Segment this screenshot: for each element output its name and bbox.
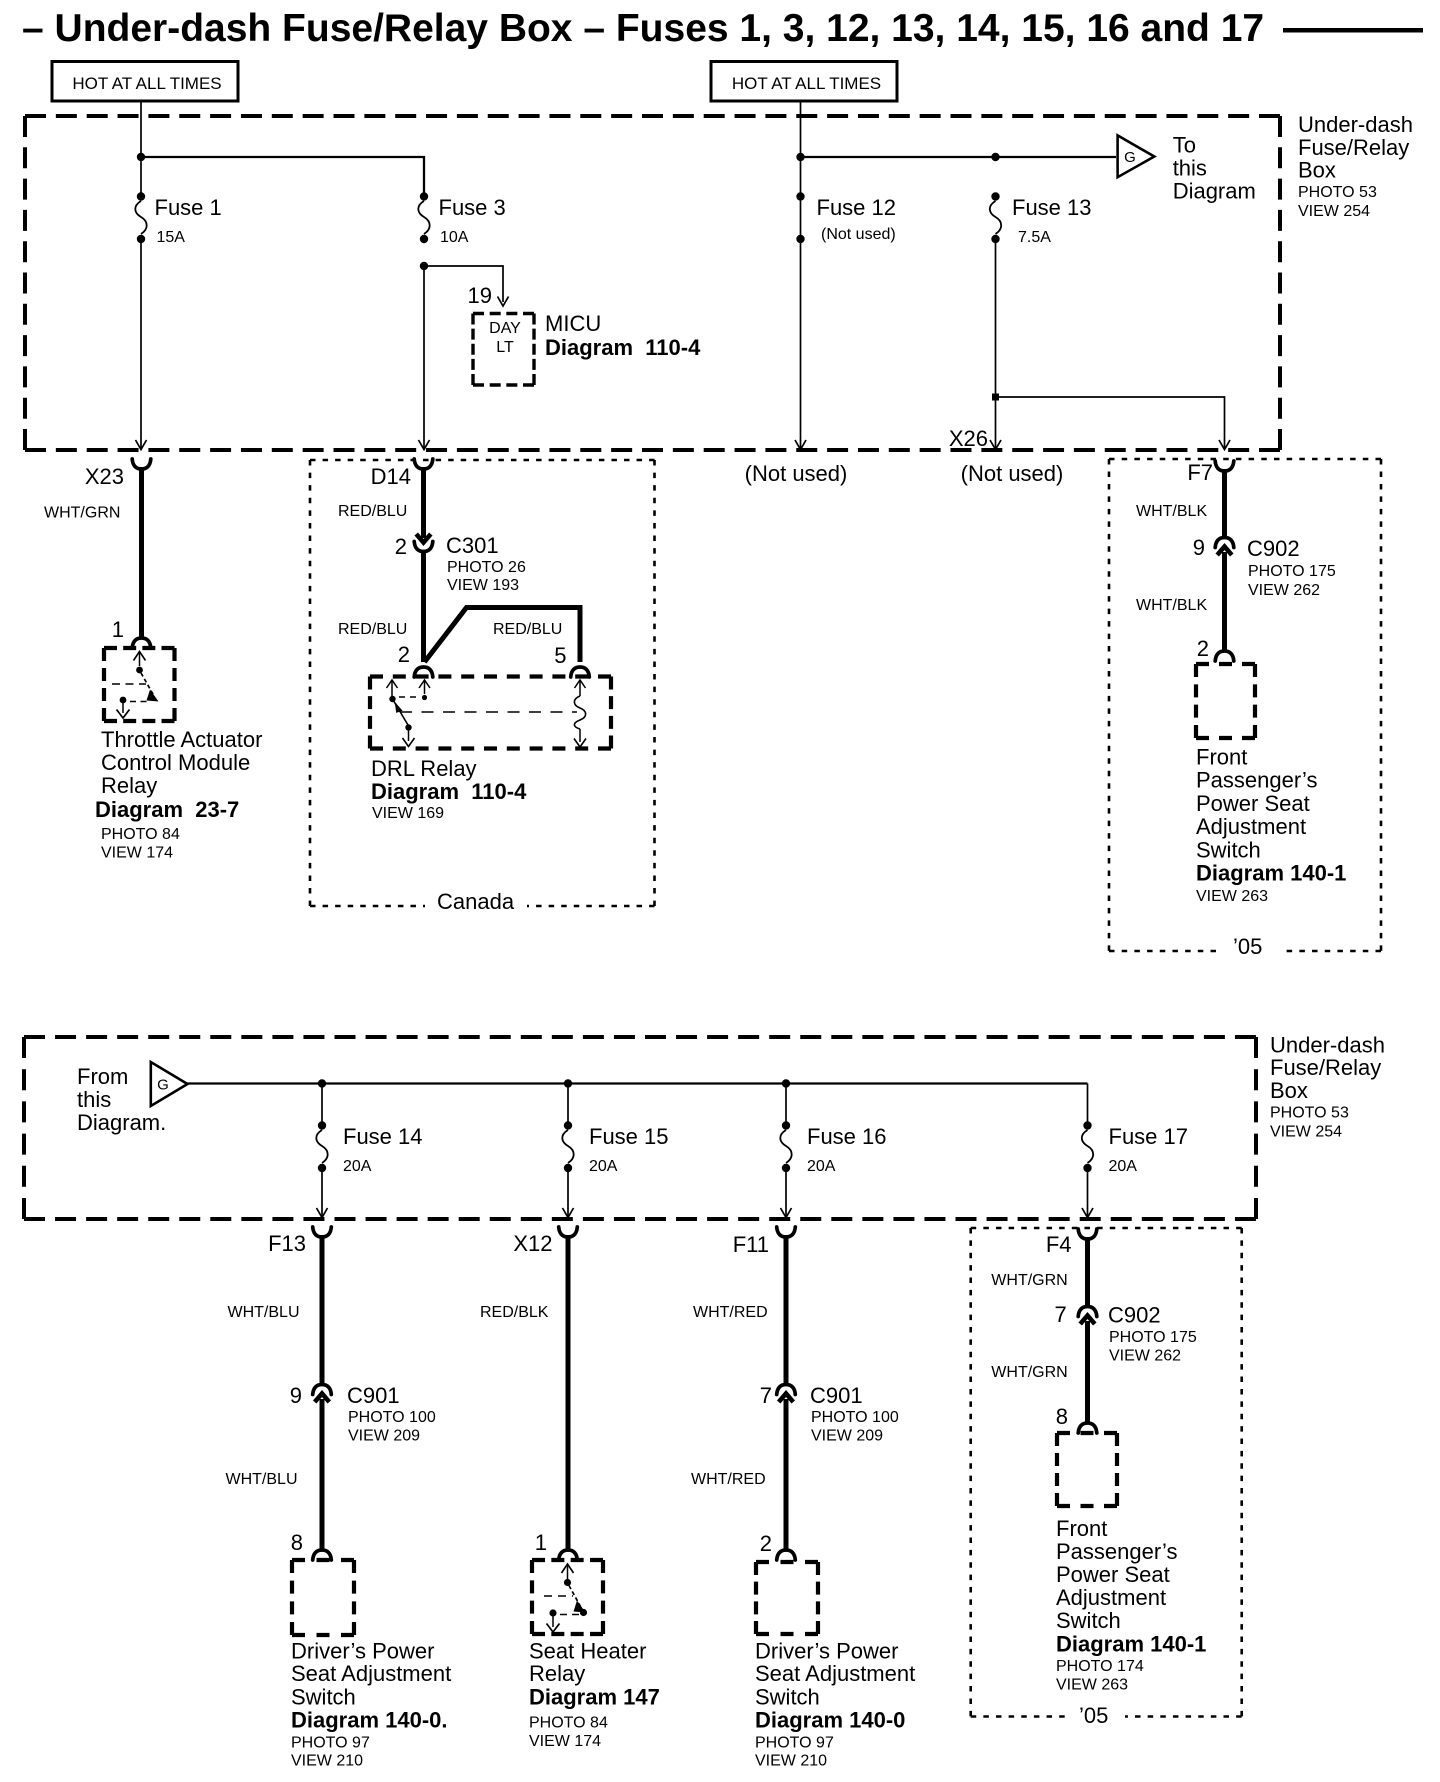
svg-text:this: this — [1173, 156, 1207, 181]
svg-text:Fuse 13: Fuse 13 — [1012, 195, 1092, 220]
svg-text:RED/BLU: RED/BLU — [493, 621, 562, 638]
fuse F13 (Fuse 13, 7.5A) — [990, 192, 1092, 246]
label: DRL Relay Diagram 110-4 VIEW 169 — [371, 756, 527, 822]
power source label: HOT AT ALL TIMES (left) — [52, 62, 238, 102]
svg-text:20A: 20A — [807, 1158, 836, 1175]
svg-text:Diagram 147: Diagram 147 — [529, 1685, 660, 1710]
label: Driver's Power Seat Adjustment Switch Diagram 140-0 (right) — [755, 1638, 915, 1769]
svg-text:WHT/GRN: WHT/GRN — [44, 505, 120, 522]
connector F11 (cup at box edge) — [733, 1227, 796, 1257]
svg-text:Power Seat: Power Seat — [1196, 791, 1310, 816]
wire: Fuse 14 to box edge (with arrow) — [317, 1172, 328, 1218]
svg-text:1: 1 — [112, 617, 124, 642]
svg-text:10A: 10A — [440, 229, 469, 246]
svg-text:VIEW 169: VIEW 169 — [372, 805, 444, 822]
svg-text:19: 19 — [468, 283, 492, 308]
svg-text:C902: C902 — [1247, 536, 1300, 561]
svg-text:Diagram 23-7: Diagram 23-7 — [95, 797, 239, 822]
svg-text:Box: Box — [1298, 158, 1336, 183]
pin 2 of DRL relay — [398, 642, 433, 677]
svg-text:2: 2 — [1197, 636, 1209, 661]
component: Driver's Power Seat Adjustment Switch (right, dashed box) — [756, 1562, 818, 1634]
svg-text:From: From — [77, 1064, 128, 1089]
svg-text:20A: 20A — [343, 1158, 372, 1175]
wire: Fuse 1 to connector X23 (with arrow) — [136, 243, 147, 450]
relay internal: DRL coil — [574, 680, 586, 747]
wire: HOT(right) down into box to Fuse 12 — [800, 101, 802, 193]
svg-text:’05: ’05 — [1079, 1703, 1108, 1728]
svg-text:LT: LT — [496, 339, 514, 356]
svg-text:Diagram 110-4: Diagram 110-4 — [371, 779, 527, 804]
wire: F11 to C901 (WHT/RED) — [693, 1235, 786, 1386]
fuse F1 (Fuse 1, 15A) — [135, 192, 221, 246]
node: junction below Fuse 3 — [420, 262, 428, 270]
svg-text:Fuse 12: Fuse 12 — [817, 195, 897, 220]
svg-text:D14: D14 — [371, 464, 411, 489]
svg-text:9: 9 — [290, 1383, 302, 1408]
svg-text:(Not used): (Not used) — [961, 461, 1064, 486]
svg-text:VIEW 254: VIEW 254 — [1298, 203, 1370, 220]
relay internal: DRL switch — [387, 680, 578, 747]
pin 1 of Throttle Actuator Control Module Relay — [112, 617, 151, 648]
pin 8 of Front Passenger's Power Seat Adjustment Switch (bottom) — [1056, 1404, 1097, 1433]
label: (Not used) below Fuse 12 drop — [745, 461, 848, 486]
wire: X23 to Throttle Actuator relay pin 1 (WHT/GRN) — [44, 467, 142, 637]
relay: Seat Heater Relay (dashed box) — [532, 1560, 603, 1634]
fuse Fuse15 (Fuse 15, 20A) — [562, 1121, 668, 1175]
svg-text:HOT AT ALL TIMES: HOT AT ALL TIMES — [732, 74, 881, 93]
svg-text:VIEW 174: VIEW 174 — [101, 845, 173, 862]
region box: Canada (dotted) — [310, 460, 655, 914]
wire: F4 to C902 (WHT/GRN) — [991, 1237, 1087, 1308]
svg-text:Relay: Relay — [101, 773, 157, 798]
svg-text:Front: Front — [1056, 1516, 1107, 1541]
node: junction at Fuse1 column / bus — [137, 153, 145, 161]
svg-text:PHOTO 175: PHOTO 175 — [1248, 563, 1336, 580]
svg-text:Diagram 110-4: Diagram 110-4 — [545, 335, 701, 360]
label: Front Passenger's Power Seat Adjustment Switch Diagram 140-1 (bottom) — [1056, 1516, 1206, 1694]
svg-text:15A: 15A — [157, 229, 186, 246]
svg-text:2: 2 — [395, 534, 407, 559]
connector C301 pin 2 — [395, 533, 526, 594]
region box: '05 (bottom, dotted) — [971, 1228, 1242, 1728]
label: Under-dash Fuse/Relay Box (bottom right) — [1270, 1033, 1385, 1141]
power source label: HOT AT ALL TIMES (right) — [711, 62, 897, 102]
svg-text:8: 8 — [291, 1530, 303, 1555]
svg-text:Switch: Switch — [291, 1685, 356, 1710]
svg-text:Control Module: Control Module — [101, 750, 250, 775]
node: junction at Fuse12 column / bus — [796, 153, 804, 161]
wire: X12 to Seat Heater Relay pin 1 (RED/BLK) — [480, 1235, 568, 1549]
svg-text:PHOTO 100: PHOTO 100 — [811, 1409, 899, 1426]
svg-text:Relay: Relay — [529, 1661, 585, 1686]
wire: C901 to Driver's switch pin 8 (WHT/BLU) — [226, 1399, 323, 1549]
svg-text:RED/BLU: RED/BLU — [338, 621, 407, 638]
label: (Not used) below X26 drop — [961, 461, 1064, 486]
svg-text:VIEW 210: VIEW 210 — [291, 1753, 363, 1770]
svg-text:PHOTO 174: PHOTO 174 — [1056, 1658, 1144, 1675]
svg-text:WHT/BLU: WHT/BLU — [226, 1471, 298, 1488]
wire: C901 to Driver's switch pin 2 (WHT/RED) — [691, 1399, 786, 1549]
svg-text:Diagram: Diagram — [1173, 179, 1256, 204]
svg-text:C301: C301 — [446, 533, 499, 558]
svg-text:Throttle Actuator: Throttle Actuator — [101, 727, 262, 752]
wire: branch from Fuse 3 to MICU pin 19 — [424, 266, 509, 308]
svg-text:20A: 20A — [1109, 1158, 1138, 1175]
svg-text:’05: ’05 — [1233, 934, 1262, 959]
off-page connector G (From this Diagram) — [151, 1062, 188, 1106]
svg-text:Fuse 14: Fuse 14 — [343, 1124, 423, 1149]
svg-text:WHT/RED: WHT/RED — [691, 1471, 766, 1488]
svg-text:X26: X26 — [949, 426, 988, 451]
svg-text:Passenger’s: Passenger’s — [1196, 768, 1317, 793]
pin 8 of Driver's Power Seat Adjustment Switch (left) — [291, 1530, 332, 1560]
wire: HOT(left) down into box to Fuse 1 — [140, 101, 142, 193]
connector X12 (cup at box edge) — [513, 1227, 577, 1256]
wire: Fuse 13 down to X26 (with arrow) — [990, 243, 1001, 450]
connector D14 (cup at box edge) — [371, 459, 433, 489]
svg-text:VIEW 263: VIEW 263 — [1196, 888, 1268, 905]
svg-text:8: 8 — [1056, 1404, 1068, 1429]
svg-text:G: G — [1124, 149, 1136, 166]
svg-text:Adjustment: Adjustment — [1196, 814, 1306, 839]
wire: bus from Fuse 12 column to G triangle — [801, 156, 1117, 158]
svg-text:5: 5 — [554, 643, 566, 668]
svg-text:1: 1 — [535, 1530, 547, 1555]
svg-text:Diagram 140-0: Diagram 140-0 — [755, 1708, 905, 1733]
svg-text:VIEW 263: VIEW 263 — [1056, 1677, 1128, 1694]
wire: bus from G triangle across box (to Fuse 17) — [188, 1082, 1088, 1084]
relay internal: throttle relay switch symbol — [112, 652, 159, 719]
node+drop: bus to Fuse 14 — [318, 1079, 326, 1122]
svg-text:HOT AT ALL TIMES: HOT AT ALL TIMES — [72, 74, 221, 93]
wire: Fuse 17 to box edge (with arrow) — [1082, 1172, 1093, 1218]
svg-text:VIEW 193: VIEW 193 — [447, 577, 519, 594]
svg-text:PHOTO 175: PHOTO 175 — [1109, 1329, 1197, 1346]
svg-text:DAY: DAY — [489, 320, 521, 337]
node: junction X26 branch — [992, 394, 999, 401]
title: Under-dash Fuse/Relay Box heading — [22, 7, 1264, 50]
svg-text:PHOTO 84: PHOTO 84 — [529, 1715, 608, 1732]
svg-text:PHOTO 100: PHOTO 100 — [348, 1409, 436, 1426]
svg-text:Switch: Switch — [1056, 1608, 1121, 1633]
svg-text:7.5A: 7.5A — [1018, 229, 1051, 246]
svg-text:2: 2 — [760, 1531, 772, 1556]
svg-text:PHOTO 53: PHOTO 53 — [1270, 1105, 1349, 1122]
component: Front Passenger's Power Seat Adjustment Switch (top, dashed box) — [1196, 664, 1255, 738]
wire: F7 to C902 (WHT/BLK) — [1136, 469, 1225, 539]
region box: '05 (top right, dotted) — [1109, 459, 1381, 961]
svg-text:PHOTO 97: PHOTO 97 — [291, 1734, 370, 1751]
svg-text:VIEW 262: VIEW 262 — [1248, 582, 1320, 599]
svg-text:7: 7 — [760, 1383, 772, 1408]
fuse Fuse14 (Fuse 14, 20A) — [316, 1121, 422, 1175]
wire: branch X26 to connector F7 (with arrow) — [996, 397, 1231, 450]
svg-text:WHT/GRN: WHT/GRN — [991, 1364, 1067, 1381]
svg-text:Passenger’s: Passenger’s — [1056, 1539, 1177, 1564]
off-page connector G (To this Diagram) — [1118, 135, 1155, 177]
label: Front Passenger's Power Seat Adjustment Switch Diagram 140-1 VIEW 263 (top) — [1196, 745, 1346, 906]
wire: Fuse 15 to box edge (with arrow) — [563, 1172, 574, 1218]
svg-text:VIEW 209: VIEW 209 — [811, 1428, 883, 1445]
relay internal: seat heater relay switch — [544, 1564, 587, 1632]
svg-text:Fuse 15: Fuse 15 — [589, 1124, 669, 1149]
wire: DRL pin2 to pin5 jumper (RED/BLU) — [425, 605, 581, 662]
svg-text:Seat Adjustment: Seat Adjustment — [291, 1661, 451, 1686]
svg-text:MICU: MICU — [545, 311, 601, 336]
pin 2 of Driver's Power Seat Adjustment Switch (right) — [760, 1531, 796, 1560]
svg-text:Diagram 140-0.: Diagram 140-0. — [291, 1708, 448, 1733]
wire: D14 to C301 (RED/BLU) — [338, 467, 424, 538]
svg-text:F4: F4 — [1046, 1232, 1072, 1257]
component: Front Passenger's Power Seat Adjustment Switch (bottom, dashed box) — [1057, 1433, 1117, 1506]
node+drop: bus to Fuse 15 — [564, 1079, 572, 1122]
svg-text:Fuse/Relay: Fuse/Relay — [1298, 135, 1409, 160]
svg-text:Switch: Switch — [1196, 837, 1261, 862]
label: Throttle Actuator Control Module Relay Diagram 23-7 — [95, 727, 262, 862]
svg-text:Canada: Canada — [437, 889, 515, 914]
connector X23 (cup at box edge) — [85, 459, 151, 489]
node: junction at Fuse13 column — [991, 153, 999, 161]
svg-text:Switch: Switch — [755, 1685, 820, 1710]
svg-text:F7: F7 — [1187, 460, 1213, 485]
svg-text:Under-dash: Under-dash — [1298, 112, 1413, 137]
connector F4 (cup at box edge) — [1046, 1229, 1097, 1257]
wire: C902 to Front Passenger's switch pin 8 (WHT/GRN) — [991, 1321, 1087, 1422]
svg-text:C902: C902 — [1108, 1303, 1161, 1328]
label: Seat Heater Relay Diagram 147 — [529, 1638, 660, 1750]
relay: Throttle Actuator Control Module Relay (dashed box) — [104, 648, 175, 721]
svg-text:Power Seat: Power Seat — [1056, 1562, 1170, 1587]
svg-text:(Not used): (Not used) — [745, 461, 848, 486]
svg-text:Diagram 140-1: Diagram 140-1 — [1196, 861, 1346, 886]
connector F7 (cup at box edge) — [1187, 460, 1233, 485]
pin 2 of Front Passenger's Power Seat Adjustment Switch (top) — [1197, 636, 1234, 661]
pin 5 of DRL relay — [554, 643, 589, 677]
svg-text:this: this — [77, 1087, 111, 1112]
wire: C902 to Front Passenger's switch pin 2 (WHT/BLK) — [1136, 552, 1225, 650]
svg-text:C901: C901 — [347, 1383, 400, 1408]
title rule line — [1283, 28, 1423, 33]
label: To this Diagram — [1173, 133, 1256, 204]
svg-text:VIEW 174: VIEW 174 — [529, 1733, 601, 1750]
node+drop: bus to Fuse 17 — [1087, 1084, 1089, 1123]
svg-text:G: G — [157, 1077, 169, 1094]
svg-text:F13: F13 — [268, 1231, 306, 1256]
svg-text:WHT/GRN: WHT/GRN — [991, 1272, 1067, 1289]
under-dash fuse/relay box (top, dashed) — [25, 116, 1280, 450]
fuse F3 (Fuse 3, 10A) — [418, 192, 505, 246]
svg-text:Under-dash: Under-dash — [1270, 1033, 1385, 1058]
label: X26 — [949, 426, 988, 451]
svg-text:Fuse 3: Fuse 3 — [439, 195, 506, 220]
pin 1 of Seat Heater Relay — [535, 1530, 578, 1560]
module MICU (DAY LT) dashed box — [473, 314, 534, 386]
svg-text:Fuse 17: Fuse 17 — [1109, 1124, 1189, 1149]
svg-text:Fuse/Relay: Fuse/Relay — [1270, 1055, 1381, 1080]
svg-text:Front: Front — [1196, 745, 1247, 770]
svg-text:2: 2 — [398, 642, 410, 667]
svg-text:PHOTO 26: PHOTO 26 — [447, 559, 526, 576]
svg-text:Seat Heater: Seat Heater — [529, 1638, 646, 1663]
fuse Fuse17 (Fuse 17, 20A) — [1082, 1121, 1188, 1175]
svg-text:X12: X12 — [513, 1231, 552, 1256]
svg-text:X23: X23 — [85, 464, 124, 489]
svg-text:VIEW 254: VIEW 254 — [1270, 1124, 1342, 1141]
label: From this Diagram. — [77, 1064, 166, 1135]
svg-text:Adjustment: Adjustment — [1056, 1585, 1166, 1610]
svg-text:VIEW 262: VIEW 262 — [1109, 1348, 1181, 1365]
relay: DRL Relay (dashed box) — [370, 677, 611, 749]
svg-text:– Under-dash Fuse/Relay Box –: – Under-dash Fuse/Relay Box – Fuses 1, 3… — [22, 7, 1264, 50]
wire: Fuse 16 to box edge (with arrow) — [781, 1172, 792, 1218]
svg-text:PHOTO 53: PHOTO 53 — [1298, 184, 1377, 201]
svg-text:VIEW 210: VIEW 210 — [755, 1753, 827, 1770]
svg-text:9: 9 — [1193, 535, 1205, 560]
connector C901 pin 7 (right) — [760, 1383, 899, 1445]
svg-text:WHT/BLU: WHT/BLU — [228, 1304, 300, 1321]
svg-text:Fuse 16: Fuse 16 — [807, 1124, 887, 1149]
connector C901 pin 9 (left) — [290, 1383, 436, 1445]
connector C902 pin 9 — [1193, 535, 1336, 599]
connector F13 (cup at box edge) — [268, 1227, 331, 1256]
svg-text:DRL Relay: DRL Relay — [371, 756, 477, 781]
under-dash fuse/relay box (bottom, dashed) — [24, 1037, 1256, 1219]
svg-text:Diagram.: Diagram. — [77, 1110, 166, 1135]
wire: Fuse 12 to box edge (not used, with arrow) — [795, 243, 806, 450]
svg-text:WHT/BLK: WHT/BLK — [1136, 503, 1207, 520]
svg-text:WHT/BLK: WHT/BLK — [1136, 597, 1207, 614]
svg-text:Fuse 1: Fuse 1 — [155, 195, 222, 220]
svg-text:(Not used): (Not used) — [821, 226, 896, 243]
label: MICU Diagram 110-4 — [545, 311, 701, 360]
connector C902 pin 7 (bottom) — [1054, 1302, 1196, 1365]
wire: bus from Fuse 1 column to Fuse 3 column — [141, 157, 424, 193]
svg-text:Driver’s Power: Driver’s Power — [755, 1638, 898, 1663]
svg-text:RED/BLU: RED/BLU — [338, 503, 407, 520]
svg-text:WHT/RED: WHT/RED — [693, 1304, 768, 1321]
svg-text:Box: Box — [1270, 1078, 1308, 1103]
svg-text:VIEW 209: VIEW 209 — [348, 1428, 420, 1445]
svg-text:To: To — [1173, 133, 1196, 158]
svg-text:C901: C901 — [810, 1383, 863, 1408]
svg-text:PHOTO 97: PHOTO 97 — [755, 1734, 834, 1751]
label: Driver's Power Seat Adjustment Switch Diagram 140-0. (left) — [291, 1638, 451, 1769]
svg-text:PHOTO 84: PHOTO 84 — [101, 826, 180, 843]
svg-text:RED/BLK: RED/BLK — [480, 1304, 549, 1321]
svg-text:Seat Adjustment: Seat Adjustment — [755, 1661, 915, 1686]
svg-text:F11: F11 — [733, 1232, 769, 1257]
label: Under-dash Fuse/Relay Box (top right) — [1298, 112, 1413, 220]
svg-text:7: 7 — [1054, 1302, 1066, 1327]
wire: F13 to C901 (WHT/BLU) — [228, 1235, 323, 1386]
wire: C301 to DRL relay pin 2 (RED/BLU) — [338, 551, 424, 662]
component: Driver's Power Seat Adjustment Switch (left, dashed box) — [292, 1560, 354, 1635]
fuse Fuse16 (Fuse 16, 20A) — [780, 1121, 886, 1175]
svg-text:Driver’s Power: Driver’s Power — [291, 1638, 434, 1663]
svg-text:Diagram 140-1: Diagram 140-1 — [1056, 1632, 1206, 1657]
fuse F12 (Fuse 12, not used) — [796, 192, 896, 243]
node+drop: bus to Fuse 16 — [782, 1079, 790, 1122]
wire: Fuse 3 to connector D14 (with arrow) — [419, 270, 430, 450]
svg-text:20A: 20A — [589, 1158, 618, 1175]
